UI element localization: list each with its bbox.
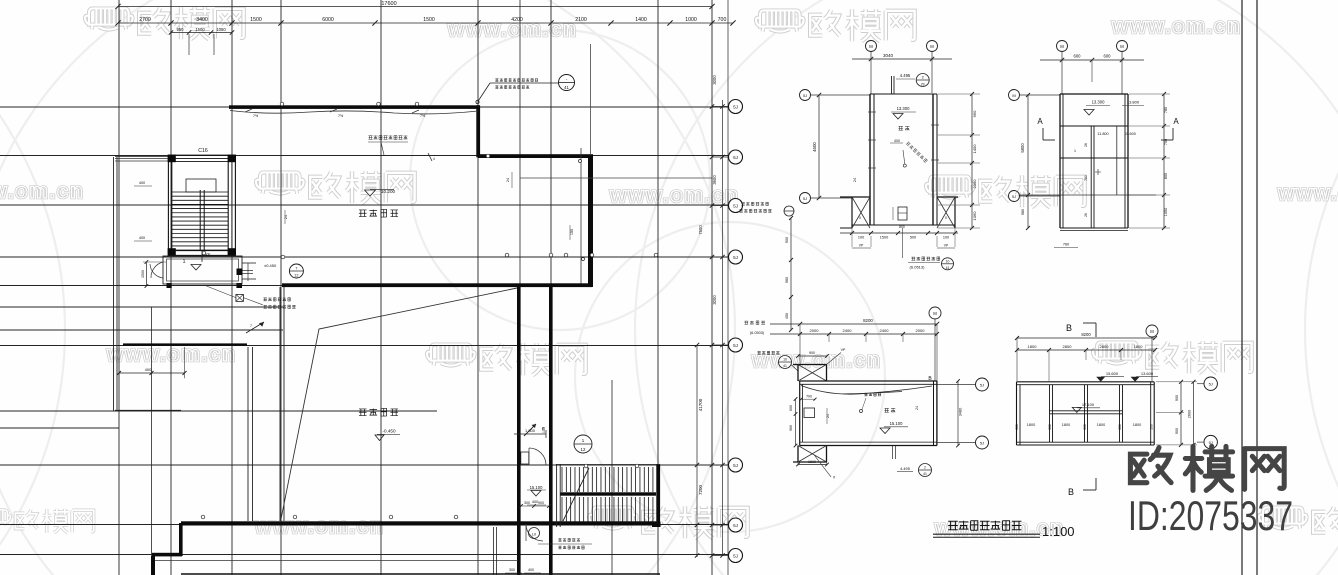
svg-text:rf: rf — [833, 476, 835, 480]
detail1 right room with cross — [937, 197, 958, 228]
svg-text:8200: 8200 — [863, 318, 873, 323]
svg-text:5J: 5J — [733, 463, 738, 468]
svg-text:2: 2 — [922, 76, 924, 80]
right vertical dimension line — [695, 75, 717, 558]
svg-text:200: 200 — [1118, 424, 1122, 430]
ramp arrow — [246, 322, 264, 333]
svg-text:2400: 2400 — [880, 328, 890, 333]
svg-text:1800: 1800 — [1097, 423, 1105, 427]
svg-text:ID:2075337: ID:2075337 — [1128, 492, 1293, 539]
svg-text:7%: 7% — [338, 114, 344, 118]
title staircase roof plan — [933, 521, 1075, 539]
detail4 right dimension — [1156, 380, 1197, 447]
svg-text:M: M — [1120, 44, 1124, 49]
svg-text:1800: 1800 — [1027, 423, 1035, 427]
canopy curve ticks — [245, 109, 426, 118]
svg-text:1500: 1500 — [195, 27, 205, 32]
svg-text:5J: 5J — [733, 523, 738, 528]
svg-text:VP: VP — [944, 244, 949, 248]
detail1 left bubbles — [800, 90, 871, 204]
grid vertical line x612 partial — [611, 380, 613, 575]
staircase upper-left treads — [172, 179, 228, 251]
svg-text:4200: 4200 — [511, 17, 523, 23]
svg-text:±0.450: ±0.450 — [264, 263, 277, 268]
grid vertical line x520 — [519, 0, 521, 285]
wall dots — [201, 102, 658, 519]
svg-text:6000: 6000 — [322, 17, 334, 23]
svg-text:7%: 7% — [420, 114, 426, 118]
svg-text:24: 24 — [915, 406, 919, 410]
detail2 right dimension — [1129, 92, 1170, 230]
svg-text:400: 400 — [139, 236, 145, 240]
svg-text:www.om.cn: www.om.cn — [751, 349, 881, 372]
grid bubble column line2 — [722, 100, 724, 556]
watermark row D — [0, 506, 1338, 540]
label courtyard level — [375, 429, 400, 441]
svg-text:3480: 3480 — [959, 408, 963, 416]
svg-text:15.600: 15.600 — [1124, 132, 1136, 136]
svg-text:2700: 2700 — [139, 17, 151, 23]
detail3 bottom annotation — [893, 446, 932, 477]
grid vertical lines — [119, 0, 712, 575]
svg-text:1000: 1000 — [685, 17, 697, 23]
svg-text:1: 1 — [1074, 149, 1076, 153]
detail3 top bubble — [929, 307, 941, 381]
svg-text:2800: 2800 — [1100, 344, 1110, 349]
svg-text:900: 900 — [809, 351, 815, 355]
bottom edge dark line — [181, 526, 660, 575]
stair level mark — [527, 485, 546, 496]
svg-text:www.om.cn: www.om.cn — [609, 184, 739, 207]
svg-text:A: A — [1173, 117, 1179, 126]
stair lower-right up arrow — [524, 424, 545, 436]
svg-text:100: 100 — [858, 236, 864, 240]
svg-text:450: 450 — [785, 313, 789, 319]
svg-text:L0: L0 — [532, 533, 536, 537]
wall corridor left — [517, 285, 521, 575]
detail2 top bubbles — [1057, 41, 1128, 95]
platform edge wall segment — [123, 343, 247, 345]
stair room walls top-left — [167, 155, 243, 288]
svg-text:1 800: 1 800 — [525, 428, 536, 433]
label courtyard name — [359, 408, 398, 416]
svg-text:900: 900 — [1175, 428, 1179, 434]
detail1 right dimension — [938, 92, 980, 230]
svg-text:600: 600 — [789, 405, 793, 411]
svg-text:8200: 8200 — [1081, 332, 1091, 337]
svg-text:12: 12 — [294, 274, 298, 278]
detail4 main box — [1017, 382, 1155, 445]
svg-text:760: 760 — [1063, 243, 1069, 247]
svg-text:7: 7 — [250, 324, 252, 328]
detail2 level marks — [1074, 100, 1144, 176]
detail4 section B bottom — [1068, 478, 1096, 497]
detail1 left room with cross — [840, 197, 870, 228]
door arc below stairs — [526, 524, 543, 541]
svg-text:1800: 1800 — [1134, 344, 1144, 349]
svg-text:17600: 17600 — [381, 1, 396, 7]
wall bottom main — [181, 521, 660, 525]
detail4 top bubble — [1146, 325, 1158, 381]
detail3 bottom-left room — [793, 446, 835, 480]
svg-text:www.om.cn: www.om.cn — [0, 180, 84, 203]
svg-text:7: 7 — [295, 267, 297, 271]
svg-text:26: 26 — [1084, 143, 1088, 147]
watermark row C — [106, 341, 1252, 375]
svg-text:M: M — [933, 311, 937, 316]
svg-text:700: 700 — [718, 17, 727, 23]
svg-text:(6.0503): (6.0503) — [750, 331, 765, 335]
svg-text:B: B — [1068, 487, 1074, 497]
svg-text:1: 1 — [182, 259, 185, 265]
svg-text:41: 41 — [946, 266, 950, 270]
svg-text:7200: 7200 — [698, 484, 703, 495]
svg-text:960: 960 — [789, 425, 793, 431]
svg-text:24: 24 — [506, 178, 510, 182]
svg-text:7500: 7500 — [698, 225, 703, 235]
svg-text:2100: 2100 — [575, 17, 587, 23]
dimension row sub — [169, 27, 234, 55]
detail1 top dimension — [852, 53, 952, 61]
wall bottom step — [151, 523, 518, 575]
svg-text:300: 300 — [524, 501, 530, 505]
bottom tiny dims 300 400 — [505, 568, 541, 573]
left wing walls — [114, 156, 182, 411]
svg-text:41: 41 — [564, 85, 569, 90]
wall platform right vertical — [581, 44, 593, 287]
label platform level — [365, 189, 396, 196]
watermark row B — [0, 171, 1338, 207]
svg-text:10: 10 — [946, 260, 950, 264]
svg-text:200: 200 — [1083, 424, 1087, 430]
svg-text:M: M — [930, 44, 934, 49]
detail3 left dimension — [789, 397, 797, 447]
svg-text:4: 4 — [433, 157, 435, 161]
label platform name — [359, 209, 398, 217]
detail3 top-left room — [793, 348, 846, 381]
svg-text:400: 400 — [532, 500, 538, 504]
svg-text:24: 24 — [826, 414, 830, 418]
svg-text:2000: 2000 — [916, 328, 926, 333]
svg-text:5J: 5J — [1209, 382, 1213, 387]
svg-text:150: 150 — [570, 229, 574, 235]
svg-text:www.om.cn: www.om.cn — [1277, 182, 1338, 205]
dimension row segments — [115, 17, 735, 26]
svg-text:2600: 2600 — [1188, 410, 1192, 418]
detail1 top ref circle — [892, 73, 930, 94]
svg-text:3040: 3040 — [883, 53, 894, 58]
wall upper mid horizontal — [478, 154, 593, 158]
vestibule leader text — [206, 286, 295, 309]
svg-text:41700: 41700 — [698, 398, 703, 411]
detail1 interior annotation — [890, 139, 928, 167]
svg-text:(6.0513): (6.0513) — [910, 265, 926, 270]
svg-text:200: 200 — [1048, 424, 1052, 430]
svg-text:1500: 1500 — [423, 17, 435, 23]
watermark row A — [85, 7, 1241, 41]
svg-text:780: 780 — [1164, 107, 1168, 113]
svg-text:C16: C16 — [198, 148, 208, 154]
svg-text:26: 26 — [1084, 213, 1088, 217]
wall courtyard top — [282, 283, 592, 287]
vestibule below stair room — [150, 256, 277, 284]
svg-text:24: 24 — [284, 215, 288, 219]
detail2 section A marks — [1037, 117, 1179, 140]
svg-text:15.100: 15.100 — [530, 485, 543, 490]
svg-text:10: 10 — [783, 358, 787, 362]
detail3 left leader — [744, 321, 798, 371]
staircase upper-left arrow — [182, 251, 202, 270]
stair reference circle 1-12 — [574, 435, 592, 453]
skylight leader and circle — [476, 75, 575, 104]
svg-text:200: 200 — [1150, 424, 1154, 430]
stair small dims — [519, 501, 551, 508]
svg-text:400: 400 — [145, 367, 152, 372]
svg-text:5J: 5J — [803, 197, 807, 201]
grid horizontal lines — [0, 107, 728, 555]
svg-text:200: 200 — [1015, 424, 1019, 430]
svg-text:15.100: 15.100 — [890, 421, 903, 426]
svg-text:960: 960 — [785, 277, 789, 283]
svg-text:B: B — [1066, 323, 1072, 333]
svg-text:900: 900 — [538, 501, 544, 505]
svg-text:2: 2 — [924, 466, 926, 470]
svg-text:780: 780 — [1084, 175, 1088, 181]
grid bubble column line — [727, 0, 729, 575]
svg-text:3000: 3000 — [712, 295, 717, 305]
detail1 main box walls — [852, 94, 955, 225]
detail4 right bubbles — [1197, 377, 1217, 449]
svg-text:600: 600 — [1104, 54, 1112, 59]
svg-text:M: M — [1150, 329, 1154, 334]
svg-text:3600: 3600 — [712, 175, 717, 185]
svg-text:1050: 1050 — [1164, 208, 1168, 216]
svg-text:5J: 5J — [803, 94, 807, 98]
svg-text:15.600: 15.600 — [1106, 371, 1119, 376]
svg-text:41: 41 — [783, 364, 787, 368]
big site id text — [1128, 492, 1293, 539]
staircase lower-right treads — [556, 464, 660, 527]
svg-text:1060: 1060 — [972, 211, 977, 221]
grid vertical line x151 — [151, 307, 153, 575]
svg-text:12: 12 — [581, 447, 586, 452]
svg-text:300: 300 — [509, 568, 515, 572]
wall corridor right — [549, 285, 553, 575]
svg-text:5J: 5J — [733, 204, 738, 209]
svg-text:29: 29 — [921, 83, 925, 87]
svg-text:600: 600 — [1074, 54, 1082, 59]
courtyard west double wall lines — [248, 287, 284, 521]
svg-text:www.om.cn: www.om.cn — [1111, 15, 1241, 38]
aluminium window leader near bubbles — [739, 202, 794, 332]
svg-text:150: 150 — [542, 427, 546, 433]
svg-text:4600: 4600 — [812, 142, 817, 152]
wall tick mark — [428, 153, 435, 161]
detail1 top grid bubbles — [866, 41, 938, 95]
svg-text:900: 900 — [785, 237, 789, 243]
svg-text:M: M — [869, 44, 873, 49]
svg-text:4.495: 4.495 — [900, 466, 910, 471]
svg-text:41: 41 — [923, 472, 927, 476]
svg-text:17.100: 17.100 — [1082, 402, 1095, 407]
svg-text:1:100: 1:100 — [1042, 524, 1075, 539]
svg-text:400: 400 — [528, 568, 534, 572]
dimension row overall 17600 — [115, 1, 714, 9]
detail2 left bubbles — [1009, 90, 1061, 202]
svg-text:500: 500 — [910, 236, 916, 240]
svg-text:4.495: 4.495 — [900, 73, 911, 78]
svg-text:5J: 5J — [980, 383, 984, 388]
svg-text:2000: 2000 — [972, 179, 977, 189]
svg-text:13.600: 13.600 — [1141, 371, 1154, 376]
bottom interior dim 400 — [527, 500, 546, 505]
stair lower-right landing door — [514, 428, 546, 465]
svg-text:M: M — [1060, 44, 1064, 49]
door jamb lines below bottom wall — [494, 527, 497, 575]
wall right step upper — [476, 105, 480, 157]
detail1 bottom vertical drop — [902, 228, 904, 258]
svg-text:5J: 5J — [733, 105, 738, 110]
svg-text:5J: 5J — [980, 441, 984, 446]
detail2 left dimension — [1020, 93, 1156, 230]
detail4 section B top — [1066, 323, 1096, 337]
wall stair right lower — [652, 464, 661, 527]
svg-text:1800: 1800 — [1028, 344, 1038, 349]
detail3 top dimensions — [770, 318, 939, 381]
svg-text:www.om.cn: www.om.cn — [254, 515, 384, 538]
canopy curve under top wall — [230, 111, 478, 114]
detail2 main box — [1060, 94, 1128, 231]
svg-text:7%: 7% — [253, 114, 259, 118]
detail3 interior — [800, 393, 920, 434]
svg-text:5J: 5J — [733, 255, 738, 260]
detail1 left dimension — [812, 93, 821, 200]
svg-text:800: 800 — [899, 225, 905, 229]
svg-text:700: 700 — [1164, 139, 1168, 145]
svg-text:400: 400 — [894, 139, 900, 143]
bottom annotation text — [291, 531, 592, 549]
label canopy leader — [368, 136, 408, 156]
svg-text:1500: 1500 — [141, 270, 145, 278]
svg-text:24: 24 — [853, 178, 857, 182]
svg-text:2000: 2000 — [810, 328, 820, 333]
svg-text:VP: VP — [841, 348, 846, 352]
svg-text:11.800: 11.800 — [1097, 132, 1108, 136]
vestibule left dimension — [141, 260, 166, 288]
detail1 level mark — [891, 106, 916, 130]
platform secondary edge line — [520, 160, 712, 261]
svg-text:5J: 5J — [733, 554, 738, 559]
svg-text:1400: 1400 — [972, 144, 977, 154]
svg-text:1400: 1400 — [635, 17, 647, 23]
svg-text:5800: 5800 — [1020, 143, 1025, 153]
vestibule reference circle — [202, 252, 304, 278]
svg-text:M: M — [1012, 93, 1015, 98]
detail4 top dimensions — [1015, 332, 1157, 381]
svg-text:5J: 5J — [1012, 195, 1016, 199]
interior small dims — [284, 172, 857, 433]
svg-text:800: 800 — [1164, 173, 1168, 179]
left wing dimension 400 — [117, 347, 187, 378]
svg-text:5J: 5J — [733, 155, 738, 160]
detail1 hatch rect — [893, 207, 907, 229]
label C16 — [198, 148, 208, 154]
svg-text:950: 950 — [177, 27, 185, 32]
svg-text:400: 400 — [139, 181, 145, 185]
svg-text:1500: 1500 — [880, 236, 888, 240]
svg-text:1050: 1050 — [216, 27, 226, 32]
svg-text:900: 900 — [1175, 395, 1179, 401]
detail3 right bubbles — [937, 378, 989, 449]
detail2 top dimension — [1040, 54, 1144, 83]
detail2 mid small dims — [1054, 143, 1088, 247]
svg-text:13.800: 13.800 — [1127, 100, 1140, 105]
svg-text:1500: 1500 — [250, 17, 262, 23]
detail1 bottom dimension — [840, 228, 958, 248]
detail3 main box — [800, 376, 937, 446]
vestibule door block — [237, 269, 254, 276]
svg-text:100: 100 — [943, 236, 949, 240]
sheet border line 1 — [1241, 0, 1243, 575]
wall top of platform room — [229, 105, 480, 109]
courtyard fold diagonal — [281, 288, 517, 519]
svg-text:3400: 3400 — [196, 17, 208, 23]
sheet border line 2 — [1256, 0, 1258, 575]
svg-text:2400: 2400 — [843, 328, 853, 333]
svg-text:1600: 1600 — [808, 460, 816, 464]
svg-text:-0.450: -0.450 — [382, 429, 395, 434]
grid bubbles — [710, 100, 743, 563]
detail4 level marks — [1072, 371, 1158, 412]
svg-text:3000: 3000 — [712, 75, 717, 85]
detail1 bottom caption — [908, 257, 954, 270]
svg-text:13.300: 13.300 — [1092, 100, 1105, 105]
svg-text:1800: 1800 — [1133, 423, 1141, 427]
svg-text:2800: 2800 — [1063, 344, 1073, 349]
svg-text:700: 700 — [806, 395, 812, 399]
svg-text:1800: 1800 — [1062, 423, 1070, 427]
big site logo text — [1130, 446, 1284, 490]
svg-text:960: 960 — [972, 110, 977, 117]
svg-text:13.300: 13.300 — [897, 106, 910, 111]
detail4 interior dims — [1015, 423, 1154, 430]
svg-text:980: 980 — [1021, 209, 1025, 215]
svg-text:5J: 5J — [733, 343, 738, 348]
svg-text:VP: VP — [859, 244, 864, 248]
svg-text:A: A — [1037, 117, 1043, 126]
